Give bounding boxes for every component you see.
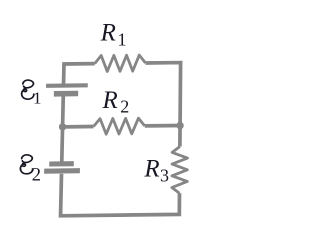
svg-text:2: 2 [32,165,41,185]
svg-text:1: 1 [118,30,127,50]
svg-text:R: R [102,87,118,114]
svg-text:R: R [143,155,159,182]
svg-text:3: 3 [160,166,169,186]
svg-text:1: 1 [33,88,42,107]
svg-text:R: R [100,19,116,46]
svg-text:2: 2 [120,97,129,117]
